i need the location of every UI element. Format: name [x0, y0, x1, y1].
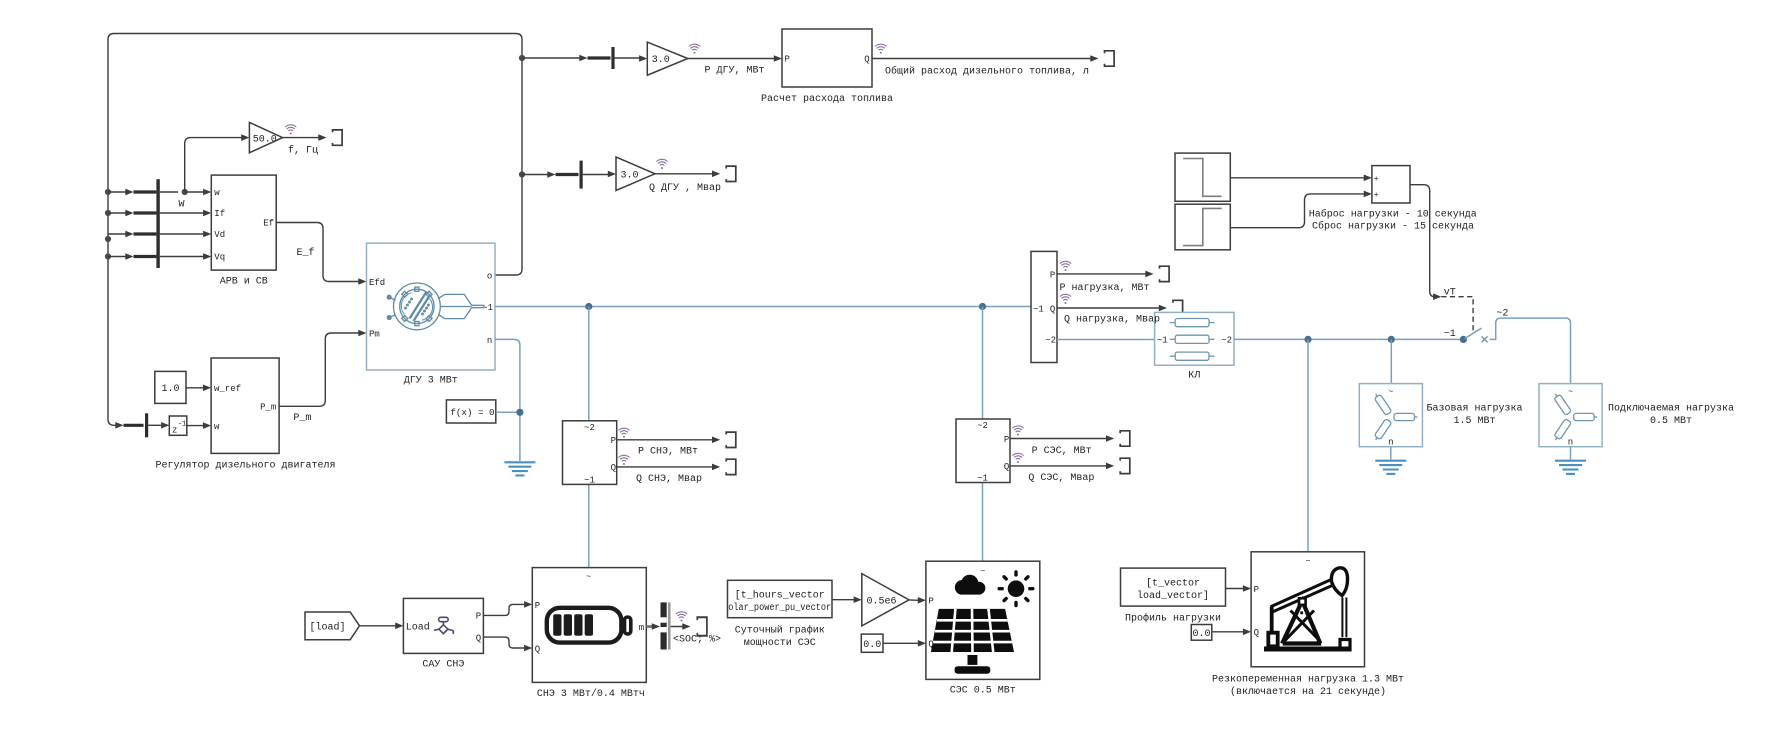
- constant 0.0 pump: [1191, 625, 1212, 641]
- svg-text:~2: ~2: [1221, 335, 1232, 345]
- svg-text:P: P: [1004, 435, 1009, 445]
- step block Наброс: [1175, 153, 1230, 201]
- solar icon: [931, 572, 1033, 674]
- svg-text:Регулятор дизельного двигателя: Регулятор дизельного двигателя: [155, 461, 335, 472]
- wire trunk to Q gain branch: [522, 171, 579, 178]
- pumpjack icon: [1264, 568, 1352, 649]
- svg-text:Q: Q: [864, 55, 869, 65]
- wifi badge P load: [1060, 261, 1071, 271]
- svg-text:Efd: Efd: [369, 278, 385, 288]
- svg-text:50.0: 50.0: [253, 135, 277, 146]
- svg-text:Профиль нагрузки: Профиль нагрузки: [1125, 611, 1221, 624]
- svg-text:Q: Q: [1004, 462, 1009, 472]
- svg-text:W: W: [179, 200, 185, 211]
- constant 0.0 SES: [861, 634, 883, 652]
- svg-text:[t_vector: [t_vector: [1146, 577, 1200, 589]
- wire bar to gain 3.0 P: [615, 55, 648, 62]
- svg-text:o: o: [487, 271, 492, 281]
- label Подключаемая нагрузка: [1608, 403, 1734, 427]
- svg-text:(включается на 21 секунде): (включается на 21 секунде): [1230, 686, 1386, 698]
- node dot base load tap: [1388, 336, 1395, 343]
- stateflow chart icon: [434, 617, 453, 634]
- wifi badge Q load: [1060, 294, 1071, 304]
- svg-text:~2: ~2: [977, 421, 988, 431]
- Y load icon base: [1373, 392, 1418, 442]
- svg-text:P: P: [611, 436, 616, 446]
- wire SNE measure down to battery: [588, 484, 590, 567]
- dashed trigger wire to breaker: [1441, 297, 1473, 331]
- svg-text:0.0: 0.0: [1193, 629, 1211, 640]
- wire base load to ground: [1390, 447, 1392, 460]
- breaker contact x: [1482, 336, 1488, 342]
- mux bar: [156, 179, 159, 268]
- wire P SES to terminator: [1010, 435, 1114, 457]
- wire bus down to SES measure: [982, 307, 984, 420]
- terminator P SES: [1120, 431, 1130, 446]
- svg-text:3.0: 3.0: [652, 55, 670, 66]
- wire SAU P to battery P: [483, 601, 532, 615]
- svg-text:load_vector]: load_vector]: [1137, 590, 1209, 602]
- wire connectable load to ground: [1570, 447, 1572, 460]
- svg-text:n: n: [1388, 438, 1393, 448]
- svg-text:мощности СЭС: мощности СЭС: [744, 638, 816, 649]
- from workspace Профиль нагрузки: [1121, 568, 1226, 624]
- battery icon: [547, 608, 631, 643]
- solver block f(x)=0: [446, 400, 495, 423]
- svg-text:~1: ~1: [977, 473, 988, 483]
- wire bar to unit delay: [148, 422, 169, 429]
- wire SES measure down to SES block: [982, 483, 984, 562]
- svg-text:Q: Q: [535, 644, 540, 654]
- svg-text:Q: Q: [928, 639, 933, 649]
- wire fuel block to terminator, label Общий расход: [872, 55, 1099, 77]
- port labels P Q of SES block: [928, 597, 933, 650]
- svg-text:Q: Q: [611, 463, 616, 473]
- svg-text:~: ~: [1388, 388, 1393, 397]
- wire workspace to gain: [832, 596, 862, 603]
- wire unit delay to w port: [187, 422, 211, 429]
- svg-text:Подключаемая нагрузка: Подключаемая нагрузка: [1608, 403, 1734, 414]
- ground base load: [1375, 461, 1406, 474]
- svg-text:w: w: [214, 422, 220, 432]
- svg-text:Наброс нагрузки - 10 секунда: Наброс нагрузки - 10 секунда: [1309, 208, 1477, 221]
- SES measurement block: [956, 419, 1010, 483]
- wifi badge Q SES: [1012, 453, 1023, 463]
- demux bar regulator: [145, 413, 148, 437]
- wifi badge Q SNE: [618, 455, 629, 465]
- node dot input row Vd: [105, 236, 111, 242]
- terminator P load: [1160, 266, 1170, 281]
- terminator f Hz: [333, 130, 343, 145]
- svg-text:Общий расход дизельного топлив: Общий расход дизельного топлива, л: [885, 64, 1089, 77]
- svg-text:Q СНЭ, Мвар: Q СНЭ, Мвар: [636, 474, 702, 485]
- node W junction dot: [179, 189, 188, 211]
- svg-text:0.0: 0.0: [863, 640, 881, 651]
- svg-text:P нагрузка, МВт: P нагрузка, МВт: [1060, 283, 1150, 294]
- svg-text:[t_hours_vector: [t_hours_vector: [735, 589, 825, 601]
- svg-text:P: P: [928, 597, 933, 607]
- block СЭС 0.5 МВт: [926, 561, 1040, 696]
- wifi badge P DGU: [689, 44, 700, 54]
- svg-text:P ДГУ, МВт: P ДГУ, МВт: [705, 66, 765, 77]
- wire bus down to SNE measure: [588, 307, 590, 421]
- svg-text:P: P: [476, 612, 481, 622]
- wire 1.0 to w_ref: [186, 385, 211, 392]
- node dot bus SES tap: [979, 303, 986, 310]
- svg-text:0.5e6: 0.5e6: [867, 596, 897, 607]
- svg-text:1.5 МВт: 1.5 МВт: [1453, 416, 1495, 427]
- terminator SOC: [697, 617, 707, 635]
- wire load tag to SAU: [360, 623, 404, 630]
- block Регулятор дизельного двигателя: [155, 358, 335, 472]
- wire W dot to w port: [185, 189, 212, 196]
- blue wire measure ~2 to KL: [1057, 339, 1155, 341]
- resistor phase B in KL: [1170, 335, 1215, 343]
- bus selector bar: [661, 602, 671, 649]
- resistor phase A in KL: [1170, 319, 1215, 327]
- svg-text:~1: ~1: [584, 475, 595, 485]
- wifi badge fuel out: [875, 44, 886, 54]
- node dot input row w: [105, 189, 111, 195]
- terminator Q load: [1173, 300, 1183, 315]
- load measurement block: [1031, 251, 1057, 362]
- Y load icon connectable: [1552, 392, 1597, 442]
- wifi badge P SNE: [618, 428, 629, 438]
- ground DGU: [504, 462, 535, 475]
- svg-text:f(x) = 0: f(x) = 0: [450, 407, 494, 418]
- gain 50.0: [249, 122, 282, 152]
- wire bar to gain 3.0 Q: [583, 171, 616, 178]
- gain 0.5e6: [862, 574, 909, 626]
- terminator Q SES: [1120, 458, 1130, 473]
- svg-text:n: n: [1568, 438, 1573, 448]
- breaker pivot dot: [1444, 329, 1467, 343]
- battery block СНЭ: [532, 568, 646, 701]
- svg-text:~2: ~2: [584, 423, 595, 433]
- svg-text:Q: Q: [1254, 628, 1259, 638]
- block Резкопеременная нагрузка pump: [1212, 552, 1404, 698]
- svg-text:P: P: [1050, 270, 1055, 280]
- machine icon synchronous generator: [387, 283, 484, 330]
- svg-text:САУ СНЭ: САУ СНЭ: [422, 659, 464, 670]
- wire P SNE to terminator: [617, 437, 721, 458]
- svg-text:Базовая нагрузка: Базовая нагрузка: [1426, 403, 1522, 414]
- svg-text:~2: ~2: [1496, 308, 1508, 319]
- wire gain Q to terminator, label Q DGU: [649, 171, 721, 194]
- svg-text:АРВ и СВ: АРВ и СВ: [220, 276, 268, 287]
- wire P_m to Pm: [279, 330, 366, 425]
- svg-text:-1: -1: [178, 421, 186, 429]
- svg-text:Q: Q: [1050, 304, 1055, 314]
- svg-text:Расчет расхода топлива: Расчет расхода топлива: [761, 94, 893, 105]
- wire breaker to connectable load: [1490, 308, 1571, 383]
- terminator fuel: [1105, 51, 1115, 66]
- wire step1 to sum: [1230, 175, 1372, 182]
- svg-text:olar_power_pu_vector: olar_power_pu_vector: [728, 602, 831, 614]
- unit delay z^-1: [169, 416, 187, 436]
- svg-text:~: ~: [1306, 558, 1311, 567]
- svg-text:[load]: [load]: [310, 621, 346, 633]
- constant 1.0: [155, 371, 186, 403]
- svg-text:f, Гц: f, Гц: [288, 144, 318, 156]
- svg-text:E_f: E_f: [297, 247, 315, 259]
- block АРВ и СВ: [211, 175, 276, 287]
- svg-text:~: ~: [980, 568, 985, 577]
- svg-text:0.5 МВт: 0.5 МВт: [1650, 416, 1692, 427]
- wire gain to fuel block, label P DGU: [688, 55, 782, 76]
- wire profile to pump P: [1226, 585, 1252, 592]
- wifi badge gain 50: [285, 125, 296, 135]
- svg-text:~1: ~1: [1444, 329, 1456, 340]
- node dot pump tap: [1304, 336, 1311, 343]
- block КЛ cable line: [1155, 312, 1234, 381]
- svg-text:Q ДГУ , Мвар: Q ДГУ , Мвар: [649, 183, 721, 194]
- wire battery m to selector: [646, 623, 660, 630]
- wire row w into mux: [108, 189, 178, 196]
- from tag [load]: [305, 612, 360, 640]
- wire Q SNE to terminator: [617, 464, 721, 485]
- svg-text:If: If: [214, 209, 225, 219]
- node junction dot top trunk P branch: [519, 55, 525, 61]
- svg-text:P_m: P_m: [260, 403, 276, 413]
- rate bar Q branch: [580, 161, 583, 189]
- svg-text:P: P: [1254, 585, 1259, 595]
- wire W up to gain 50: [185, 134, 250, 192]
- wire 0.0 to SES Q: [883, 640, 926, 647]
- wire step2 to sum: [1230, 191, 1372, 228]
- svg-text:Суточный график: Суточный график: [735, 623, 825, 636]
- wire feedback loop from machine o output around top-left: [108, 34, 522, 426]
- svg-text:Сброс нагрузки - 15 секунда: Сброс нагрузки - 15 секунда: [1312, 219, 1474, 232]
- svg-text:1.0: 1.0: [162, 384, 180, 395]
- svg-text:~: ~: [1568, 388, 1573, 397]
- svg-text:СНЭ 3 МВт/0.4 МВтч: СНЭ 3 МВт/0.4 МВтч: [537, 688, 645, 700]
- node dot n net: [516, 409, 523, 416]
- svg-text:Vd: Vd: [214, 230, 225, 240]
- svg-text:Резкопеременная нагрузка 1.3 М: Резкопеременная нагрузка 1.3 МВт: [1212, 675, 1404, 686]
- svg-text:+: +: [1374, 175, 1379, 184]
- wifi badge SOC: [676, 612, 687, 622]
- svg-text:m: m: [639, 623, 644, 633]
- svg-text:P: P: [785, 55, 790, 65]
- terminator P SNE: [726, 432, 736, 447]
- breaker open arm: [1465, 328, 1482, 338]
- wire sum output down to vT: [1410, 185, 1456, 300]
- label Q нагрузка Мвар: [1064, 315, 1160, 326]
- svg-text:P СНЭ, МВт: P СНЭ, МВт: [638, 447, 698, 458]
- wire selector to terminator SOC: [671, 623, 721, 645]
- block Подключаемая нагрузка: [1539, 384, 1602, 448]
- svg-text:Q нагрузка, Мвар: Q нагрузка, Мвар: [1064, 315, 1160, 326]
- wire Ef to Efd: [276, 223, 366, 285]
- svg-text:Load: Load: [406, 621, 430, 633]
- resistor phase C in KL: [1170, 352, 1215, 360]
- wire row Vq into mux: [108, 253, 211, 260]
- svg-text:3.0: 3.0: [621, 171, 639, 182]
- node junction dot trunk Q branch: [519, 171, 525, 177]
- wire down to pump block: [1307, 339, 1309, 551]
- svg-text:~2: ~2: [1045, 335, 1056, 345]
- solar panel white grid: [933, 609, 1013, 652]
- blue bus machine ~1 to measurement: [495, 306, 1031, 308]
- svg-text:~1: ~1: [1033, 304, 1044, 314]
- wire f(x)=0 to node: [496, 411, 520, 413]
- svg-text:Q: Q: [476, 633, 481, 643]
- svg-text:~1: ~1: [1157, 335, 1168, 345]
- svg-text:~: ~: [586, 573, 591, 582]
- ground connectable load: [1555, 461, 1586, 474]
- svg-text:ДГУ 3 МВт: ДГУ 3 МВт: [404, 376, 458, 387]
- gain 3.0 Q DGU: [616, 157, 655, 191]
- svg-text:P: P: [535, 601, 540, 611]
- label Базовая нагрузка: [1426, 403, 1522, 427]
- wire into rate bar regulator row: [115, 422, 143, 429]
- block Базовая нагрузка: [1359, 384, 1422, 448]
- block Расчет расхода топлива: [761, 29, 893, 105]
- step block Сброс: [1175, 204, 1230, 250]
- wifi badge P SES: [1012, 426, 1023, 436]
- sum block: [1372, 166, 1410, 203]
- wire gain50 to terminator f Hz: [283, 134, 327, 156]
- svg-text:Ef: Ef: [263, 219, 274, 229]
- rate bar P branch: [611, 47, 614, 69]
- svg-text:Pm: Pm: [369, 329, 380, 339]
- node dot input row If: [105, 210, 111, 216]
- svg-text:n: n: [487, 336, 492, 346]
- svg-text:P СЭС, МВт: P СЭС, МВт: [1032, 446, 1092, 457]
- SNE measurement block: [563, 421, 617, 486]
- machine block ДГУ 3 МВт: [367, 243, 496, 386]
- svg-text:СЭС 0.5 МВт: СЭС 0.5 МВт: [950, 685, 1016, 696]
- wire Q load to terminator: [1057, 305, 1167, 312]
- svg-text:Vq: Vq: [214, 253, 225, 263]
- wire trunk to P gain branch: [522, 55, 611, 62]
- svg-text:w_ref: w_ref: [214, 384, 241, 394]
- label Наброс Сброс: [1309, 208, 1477, 233]
- wire down to base load: [1390, 339, 1392, 383]
- wire 0.0 to pump Q: [1212, 629, 1251, 636]
- terminator Q SNE: [726, 459, 736, 474]
- svg-text:P_m: P_m: [293, 413, 311, 424]
- svg-text:КЛ: КЛ: [1188, 370, 1200, 381]
- svg-text:Q СЭС, Мвар: Q СЭС, Мвар: [1028, 473, 1094, 484]
- wire P load to terminator: [1057, 271, 1154, 294]
- wire gain to SES P: [909, 597, 926, 604]
- svg-text:z: z: [172, 426, 177, 436]
- wifi badge Q DGU: [656, 159, 667, 169]
- wire Q SES to terminator: [1010, 463, 1114, 484]
- gain 3.0 P DGU: [647, 42, 688, 75]
- wire row Vd into mux: [108, 231, 211, 238]
- wire row If into mux: [108, 210, 211, 217]
- wire machine n to ground: [495, 339, 520, 461]
- svg-text:w: w: [214, 188, 220, 198]
- block САУ СНЭ: [403, 598, 483, 670]
- node dot input row Vq: [105, 253, 111, 259]
- terminator Q DGU: [726, 166, 736, 181]
- node dot bus SNE tap: [585, 303, 592, 310]
- blue bus KL to breaker: [1234, 338, 1460, 340]
- from workspace Суточный график: [728, 580, 833, 649]
- svg-text:+: +: [1374, 191, 1379, 200]
- wire SAU Q to battery Q: [483, 637, 532, 651]
